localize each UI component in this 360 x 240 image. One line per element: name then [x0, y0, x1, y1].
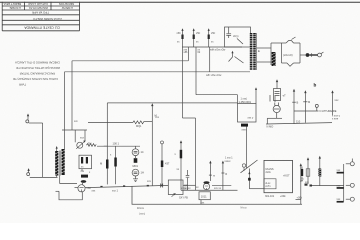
svg-text:+00k: +00k: [280, 195, 286, 198]
svg-text:M: M: [308, 100, 310, 104]
svg-text:x86: x86: [184, 51, 189, 54]
svg-text:x5C: x5C: [211, 32, 216, 35]
svg-text:xxx 1: xxx 1: [112, 189, 118, 192]
svg-text:(xOxxO): (xOxxO): [283, 53, 293, 57]
svg-text:A KOWE: A KOWE: [10, 6, 21, 10]
svg-text:xxxx xxx: xxxx xxx: [181, 187, 191, 190]
svg-text:xxxxx: xxxxx: [225, 160, 232, 163]
svg-text:N MO: N MO: [267, 125, 274, 129]
svg-text:x exe: x exe: [332, 117, 339, 120]
svg-text:x5C: x5C: [196, 32, 201, 35]
svg-text:R: R: [225, 173, 227, 176]
svg-text:+KOT: +KOT: [283, 174, 290, 177]
svg-text:301-101: 301-101: [265, 195, 275, 198]
svg-text:(xxxx): (xxxx): [139, 214, 145, 216]
svg-text:437: 437: [165, 162, 170, 166]
svg-text:BERGT WDA: BERGT WDA: [3, 2, 21, 6]
svg-text:wfth xOw xOw: wfth xOw xOw: [210, 49, 226, 52]
svg-text:E: E: [258, 49, 260, 53]
svg-text:SXY FB: SXY FB: [179, 197, 188, 200]
svg-text:WAGVA QAI IATTWL ITUCATON TR: WAGVA QAI IATTWL ITUCATON TR: [16, 66, 60, 70]
svg-text:1H: 1H: [141, 171, 144, 175]
svg-text:wfh xOw xOw: wfh xOw xOw: [206, 74, 221, 77]
svg-text:xxx y: xxx y: [248, 117, 254, 120]
svg-text:N ATTUREIRE: N ATTUREIRE: [320, 109, 337, 113]
svg-text:-xT: -xT: [282, 94, 286, 98]
svg-text:CLI CExTE ITYWANDA: CLI CExTE ITYWANDA: [24, 25, 60, 29]
svg-text:xF(x): xF(x): [233, 35, 239, 38]
svg-text:1,450,0001: 1,450,0001: [239, 101, 252, 104]
svg-text:2x0v: 2x0v: [266, 171, 272, 174]
svg-text:WACWO PLTA: WACWO PLTA: [29, 6, 48, 10]
svg-text:CHECAK RHWAGO D-ITVL LAN(C)A: CHECAK RHWAGO D-ITVL LAN(C)A: [15, 61, 60, 65]
svg-text:100 1: 100 1: [113, 141, 120, 145]
svg-text:MROW DIN: MROW DIN: [59, 2, 74, 6]
svg-text:TVAR: TVAR: [19, 83, 26, 87]
svg-text:M: M: [155, 114, 157, 118]
svg-text:M: M: [100, 161, 102, 165]
svg-text:m: m: [213, 175, 215, 178]
svg-text:1011: 1011: [201, 194, 207, 198]
svg-text:TPO WI APR: TPO WI APR: [32, 10, 49, 14]
svg-text:xxx xx: xxx xx: [214, 187, 222, 190]
svg-text:CATLAD LCAR: CATLAD LCAR: [28, 2, 48, 6]
svg-text:MQ1: MQ1: [136, 125, 142, 128]
svg-text:PAVCAC RHWAJKO TATTAR: PAVCAC RHWAJKO TATTAR: [20, 72, 55, 76]
svg-text:A KBCW: A KBCW: [61, 6, 73, 10]
svg-text:M-xxx: M-xxx: [241, 208, 248, 210]
svg-text:b: b: [314, 83, 317, 88]
svg-text:110: 110: [296, 120, 301, 124]
svg-text:CATCH TAN CATTAN CTAV(SAV) TR: CATCH TAN CATTAN CTAV(SAV) TR: [13, 77, 58, 81]
svg-text:x5C: x5C: [177, 32, 182, 35]
svg-text:xxxCA SUMW WALTO: xxxCA SUMW WALTO: [32, 17, 62, 21]
svg-text:B: B: [297, 101, 299, 105]
svg-text:xxTx: xxTx: [265, 185, 271, 188]
svg-text:MD1: MD1: [133, 164, 139, 168]
svg-text:1Fxxx: 1Fxxx: [137, 206, 145, 210]
svg-text:+00k: +00k: [297, 196, 303, 199]
